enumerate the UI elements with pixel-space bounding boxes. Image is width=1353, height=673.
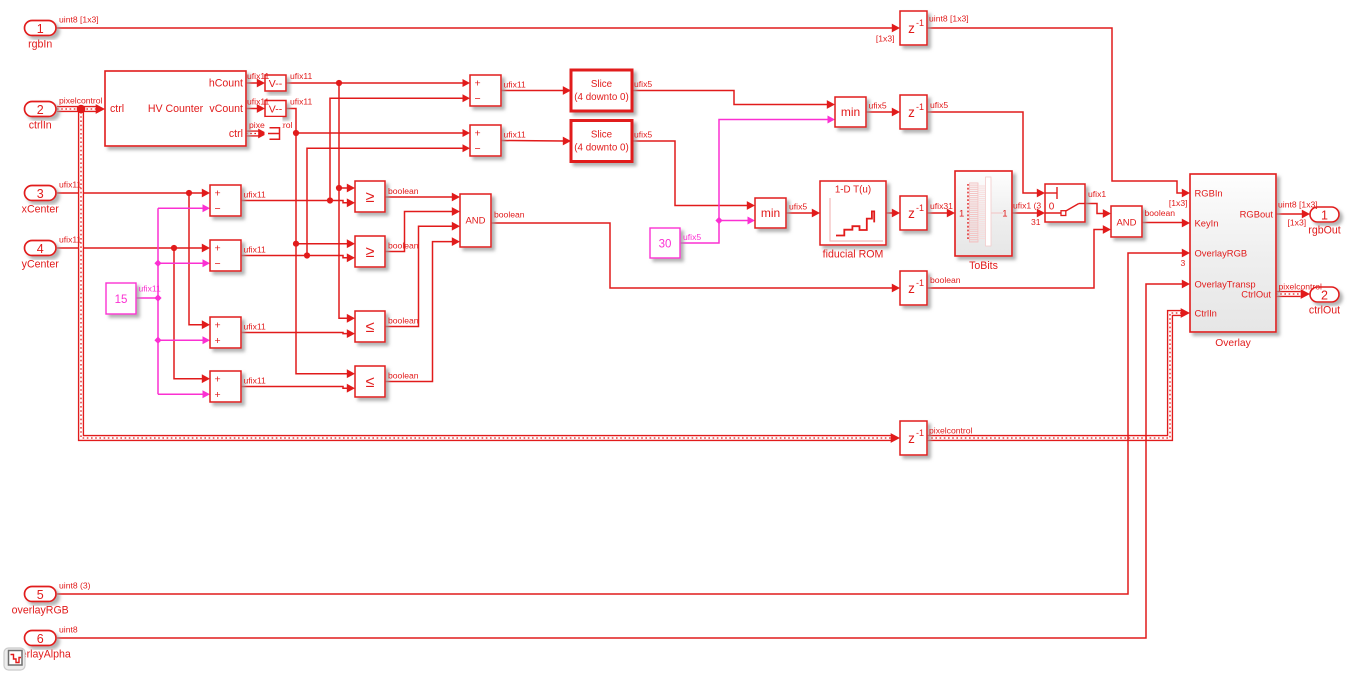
- junction ctrlIn bus: [77, 105, 86, 114]
- svg-text:ufix5: ufix5: [683, 232, 701, 242]
- svg-text:≤: ≤: [366, 374, 375, 391]
- svg-text:+: +: [215, 373, 221, 385]
- svg-text:boolean: boolean: [930, 275, 961, 285]
- junction vCount GE2: [293, 241, 299, 247]
- junction const30: [715, 217, 722, 224]
- svg-text:ufix11: ufix11: [244, 376, 267, 386]
- svg-text:vCount: vCount: [209, 103, 243, 115]
- inport 1 rgbIn: [25, 14, 99, 50]
- wire overlayRGB long: [57, 249, 1190, 594]
- svg-text:(4 downto 0): (4 downto 0): [574, 92, 628, 103]
- svg-text:ctrl: ctrl: [110, 103, 124, 115]
- svg-text:ufix1: ufix1: [1088, 189, 1106, 199]
- svg-text:≥: ≥: [366, 189, 375, 206]
- inport 5 overlayRGB: [12, 580, 91, 616]
- wire hCount to GE1: [339, 184, 355, 193]
- bus ctrlIn to HV Counter: [57, 104, 105, 114]
- block Slice1: [571, 70, 652, 111]
- svg-text:3: 3: [1181, 258, 1186, 268]
- svg-text:−: −: [215, 203, 221, 215]
- compare GE1: [355, 181, 419, 212]
- wire sumB to Slice2: [501, 137, 571, 146]
- svg-text:pixelcontrol: pixelcontrol: [59, 95, 103, 105]
- compare LE2: [355, 366, 419, 397]
- svg-text:1-D T(u): 1-D T(u): [835, 185, 871, 196]
- logic AND1: [460, 194, 525, 247]
- wire min2 to ROM: [786, 209, 820, 218]
- junction const15 a: [154, 260, 161, 267]
- wire hCount to V1: [246, 79, 265, 88]
- svg-text:-1: -1: [916, 102, 924, 112]
- svg-text:+: +: [215, 319, 221, 331]
- junction xCenter: [186, 190, 192, 196]
- wire ToBits to switch: [1012, 209, 1045, 218]
- svg-text:AND: AND: [1116, 218, 1136, 229]
- wire unit delay to Overlay RGBIn: [927, 28, 1190, 197]
- svg-text:Slice: Slice: [591, 130, 613, 141]
- delay Z3 ufix31: [900, 196, 953, 230]
- svg-text:ufix11: ufix11: [290, 97, 313, 107]
- wire overlayAlpha long: [57, 280, 1190, 638]
- lookup table fiducial ROM: [820, 181, 886, 261]
- svg-text:2: 2: [1321, 288, 1328, 302]
- block ToBits: [955, 171, 1012, 272]
- svg-text:ctrlOut: ctrlOut: [1309, 305, 1340, 317]
- svg-text:ufix5: ufix5: [869, 101, 887, 111]
- wire ROM to delay: [886, 209, 900, 218]
- svg-text:boolean: boolean: [494, 210, 525, 220]
- wire sum3L out to LE1: [241, 329, 355, 338]
- compare LE1: [355, 311, 419, 342]
- svg-text:30: 30: [659, 239, 672, 251]
- inport 4 yCenter: [22, 234, 82, 270]
- svg-text:≤: ≤: [366, 319, 375, 336]
- wire yCenter net: [57, 244, 210, 253]
- svg-text:yCenter: yCenter: [22, 259, 60, 271]
- svg-text:RGBout: RGBout: [1240, 208, 1274, 219]
- bus ctrlIn branch to delay: [81, 112, 900, 443]
- svg-text:AND: AND: [465, 216, 485, 227]
- svg-text:6: 6: [37, 632, 44, 646]
- logic AND2: [1111, 206, 1175, 237]
- svg-text:ufix5: ufix5: [634, 79, 652, 89]
- junction const15 b: [154, 294, 161, 301]
- svg-text:ufix11: ufix11: [247, 71, 270, 81]
- svg-text:CtrlIn: CtrlIn: [1195, 307, 1217, 318]
- svg-text:ufix5: ufix5: [634, 130, 652, 140]
- svg-text:−: −: [475, 93, 481, 105]
- svg-text:V--: V--: [269, 78, 283, 90]
- svg-text:+: +: [215, 389, 221, 401]
- sum yCenter+15: [210, 371, 266, 402]
- label [1x3] RGBIn: [1169, 198, 1188, 208]
- wire AND1 boolean to delay: [491, 223, 900, 292]
- block V1 hCount: [247, 71, 313, 91]
- wire RGBout to outport: [1276, 210, 1310, 219]
- svg-text:V--: V--: [269, 104, 283, 116]
- outport 1 rgbOut: [1278, 200, 1341, 237]
- junction hCount top: [336, 80, 342, 86]
- svg-text:ufix31: ufix31: [930, 201, 953, 211]
- constant 15: [106, 283, 161, 314]
- svg-text:xCenter: xCenter: [22, 204, 60, 216]
- bus delay to Overlay CtrlIn: [927, 308, 1190, 438]
- svg-text:z: z: [908, 431, 915, 446]
- wire vCount to V2: [246, 104, 265, 113]
- wire const15 to sum2L: [158, 259, 210, 267]
- wire const15 out: [136, 297, 158, 299]
- wire ufix5 delay to switch: [927, 112, 1045, 197]
- svg-text:ufix11: ufix11: [244, 245, 267, 255]
- svg-text:4: 4: [37, 242, 44, 256]
- svg-text:1: 1: [959, 209, 964, 220]
- wire sum4L out to LE2: [241, 384, 355, 393]
- svg-text:15: 15: [115, 294, 128, 306]
- wire vCount net: [286, 109, 355, 379]
- svg-text:uint8: uint8: [59, 624, 78, 634]
- sum vCount minus: [470, 125, 526, 156]
- wire LE1 boolean to AND1: [385, 222, 460, 327]
- wire xCenter net: [57, 189, 210, 198]
- wire GE1 boolean to AND1: [385, 193, 460, 202]
- svg-text:ufix5: ufix5: [930, 100, 948, 110]
- wire sum1L branch to sumA: [330, 94, 470, 200]
- sum xCenter-15: [210, 185, 266, 216]
- wire GE2 boolean to AND1: [385, 207, 460, 251]
- svg-text:ufix11: ufix11: [504, 130, 527, 140]
- svg-text:z: z: [908, 21, 915, 36]
- svg-text:ufix11: ufix11: [59, 179, 82, 189]
- delay Z2 ufix5: [900, 95, 948, 129]
- wire Slice1 to min1: [632, 91, 835, 109]
- svg-text:3: 3: [37, 187, 44, 201]
- svg-text:min: min: [761, 206, 780, 220]
- svg-text:OverlayRGB: OverlayRGB: [1195, 247, 1248, 258]
- wire hCount net: [286, 79, 470, 87]
- svg-text:KeyIn: KeyIn: [1195, 217, 1219, 228]
- constant 30: [650, 228, 701, 258]
- svg-text:ufix11: ufix11: [244, 322, 267, 332]
- svg-text:+: +: [215, 335, 221, 347]
- svg-text:uint8 [1x3]: uint8 [1x3]: [929, 14, 969, 24]
- badge content preview: [4, 648, 25, 670]
- svg-text:ufix11: ufix11: [290, 71, 313, 81]
- inport 6 overlayAlpha: [10, 624, 78, 660]
- svg-text:1: 1: [1002, 209, 1007, 220]
- subsystem HV Counter: [105, 71, 246, 146]
- sum xCenter+15: [210, 317, 266, 348]
- svg-text:boolean: boolean: [388, 186, 419, 196]
- svg-text:≥: ≥: [366, 244, 375, 261]
- svg-text:hCount: hCount: [209, 78, 243, 90]
- block min1: [835, 97, 887, 127]
- junction sum2L: [304, 252, 310, 258]
- svg-text:−: −: [215, 258, 221, 270]
- junction const15 c: [154, 337, 161, 344]
- svg-text:-1: -1: [916, 18, 924, 28]
- svg-text:−: −: [475, 143, 481, 155]
- svg-text:ufix11: ufix11: [504, 80, 527, 90]
- wire const15 to sum3L: [158, 336, 210, 344]
- junction sum1L: [327, 197, 333, 203]
- wire sum2L out to GE2: [241, 253, 355, 262]
- label ufix1 (3 before switch: [1013, 201, 1041, 228]
- svg-text:ctrl: ctrl: [229, 128, 243, 140]
- svg-text:uint8 [1x3]: uint8 [1x3]: [59, 14, 99, 24]
- svg-text:z: z: [908, 105, 915, 120]
- svg-text:ufix1 (3: ufix1 (3: [1013, 201, 1041, 211]
- junction hCount GE1: [336, 185, 342, 191]
- compare GE2: [355, 236, 419, 267]
- label 3 OverlayRGB: [1181, 258, 1186, 268]
- wire LE2 boolean to AND1: [385, 237, 460, 381]
- svg-text:uint8 [1x3]: uint8 [1x3]: [1278, 200, 1318, 210]
- svg-text:ctrlIn: ctrlIn: [29, 120, 52, 132]
- wire sumA to Slice1: [501, 86, 571, 95]
- junction yCenter: [171, 245, 177, 251]
- wire const15 vertical net: [157, 208, 159, 394]
- wire boolean delay to AND2: [927, 225, 1111, 288]
- svg-text:+: +: [475, 127, 481, 139]
- wire min1 to delay: [866, 108, 900, 117]
- svg-text:[1x3]: [1x3]: [876, 34, 895, 44]
- block V2 vCount: [247, 97, 313, 117]
- wire const30 to min1: [680, 116, 835, 244]
- svg-text:RGBIn: RGBIn: [1195, 187, 1223, 198]
- svg-text:0: 0: [1049, 202, 1055, 213]
- svg-text:z: z: [908, 281, 915, 296]
- bus CtrlOut to outport: [1276, 289, 1310, 299]
- wire hCount branch down: [339, 83, 355, 323]
- svg-text:+: +: [475, 77, 481, 89]
- svg-text:boolean: boolean: [1145, 208, 1176, 218]
- svg-text:+: +: [215, 242, 221, 254]
- svg-text:5: 5: [37, 588, 44, 602]
- wire const15 to sum4L: [158, 390, 210, 398]
- svg-text:CtrlOut: CtrlOut: [1241, 288, 1271, 299]
- svg-text:uint8 (3): uint8 (3): [59, 580, 91, 590]
- block min2: [755, 198, 807, 228]
- svg-text:ufix11: ufix11: [59, 234, 82, 244]
- bus HV ctrl out: [246, 129, 268, 139]
- svg-text:31: 31: [1031, 217, 1041, 227]
- svg-text:ufix11: ufix11: [247, 97, 270, 107]
- svg-text:boolean: boolean: [388, 241, 419, 251]
- svg-text:Slice: Slice: [591, 79, 613, 90]
- svg-text:(4 downto 0): (4 downto 0): [574, 143, 628, 154]
- wire vCount to sumB: [296, 129, 470, 137]
- selector switch bit31: [1045, 184, 1106, 222]
- svg-text:ufix11: ufix11: [244, 190, 267, 200]
- svg-text:boolean: boolean: [388, 371, 419, 381]
- wire Slice2 to min2: [632, 141, 755, 210]
- svg-text:boolean: boolean: [388, 316, 419, 326]
- svg-text:ToBits: ToBits: [969, 260, 998, 272]
- wire sum1L out to GE1: [241, 198, 355, 207]
- wire xCenter branch: [189, 193, 210, 329]
- svg-text:-1: -1: [916, 278, 924, 288]
- block Slice2: [571, 121, 652, 162]
- outport 2 ctrlOut: [1279, 282, 1341, 317]
- wire const15 to sum1L: [158, 204, 210, 212]
- svg-text:+: +: [215, 187, 221, 199]
- svg-text:1: 1: [1321, 208, 1328, 222]
- svg-text:pixelcontrol: pixelcontrol: [929, 426, 973, 436]
- svg-text:[1x3]: [1x3]: [1288, 218, 1307, 228]
- inport 3 xCenter: [22, 179, 82, 215]
- inport 2 ctrlIn: [25, 95, 103, 131]
- svg-text:z: z: [908, 206, 915, 221]
- wire sum2L branch to sumB: [307, 144, 470, 255]
- wire delay to ToBits: [927, 209, 955, 218]
- svg-text:ufix5: ufix5: [789, 202, 807, 212]
- wire AND2 boolean to KeyIn: [1142, 219, 1190, 228]
- sum hCount minus: [470, 75, 526, 106]
- svg-text:-1: -1: [916, 428, 924, 438]
- svg-text:pixelcontrol: pixelcontrol: [1279, 282, 1323, 292]
- wire const30 to min2: [719, 217, 755, 225]
- wire vCount to GE2: [296, 239, 355, 248]
- svg-text:2: 2: [37, 103, 44, 117]
- junction vCount sumB: [293, 130, 299, 136]
- svg-text:fiducial ROM: fiducial ROM: [823, 249, 884, 261]
- wire switch to AND2: [1085, 204, 1111, 218]
- delay Z4 boolean: [900, 271, 961, 305]
- subsystem Overlay: [1190, 174, 1276, 349]
- svg-text:[1x3]: [1x3]: [1169, 198, 1188, 208]
- svg-text:-1: -1: [916, 203, 924, 213]
- svg-text:rgbIn: rgbIn: [28, 39, 52, 51]
- svg-text:overlayRGB: overlayRGB: [12, 605, 69, 617]
- wire yCenter branch: [174, 248, 210, 383]
- svg-text:ufix11: ufix11: [139, 284, 162, 294]
- svg-text:HV Counter: HV Counter: [148, 103, 204, 115]
- delay Z5 pixelcontrol: [900, 421, 973, 455]
- svg-text:min: min: [841, 105, 860, 119]
- svg-text:rgbOut: rgbOut: [1308, 225, 1340, 237]
- wire rgbIn to unit delay: [56, 24, 900, 33]
- svg-text:1: 1: [37, 22, 44, 36]
- bus terminator fork on HV ctrl: [249, 117, 293, 143]
- svg-text:Overlay: Overlay: [1215, 338, 1251, 349]
- delay Z1 rgb: [876, 11, 969, 45]
- sum yCenter-15: [210, 240, 266, 271]
